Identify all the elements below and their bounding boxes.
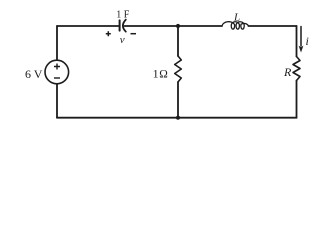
svg-text:1: 1	[153, 67, 159, 81]
svg-text:Ω: Ω	[159, 69, 168, 81]
svg-text:v: v	[120, 34, 125, 46]
svg-text:L: L	[233, 11, 240, 23]
svg-text:R: R	[283, 65, 292, 79]
svg-text:6 V: 6 V	[25, 67, 43, 81]
svg-text:i: i	[306, 34, 309, 48]
svg-text:1 F: 1 F	[116, 9, 130, 20]
